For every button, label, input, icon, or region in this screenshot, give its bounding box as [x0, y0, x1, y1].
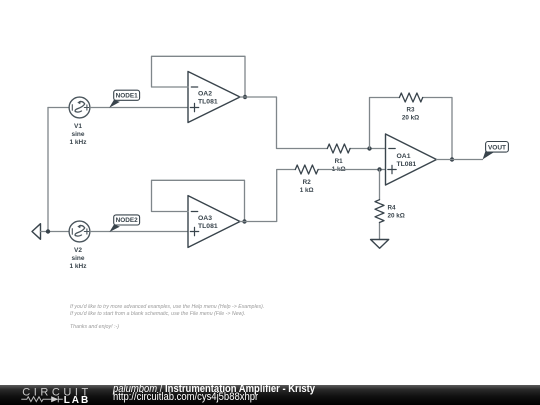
resistor R4 — [375, 200, 405, 223]
op-amp OA3 — [188, 196, 240, 248]
wire OA3 feedback loop — [152, 180, 245, 221]
svg-text:TL081: TL081 — [397, 161, 417, 168]
junction OA3 output — [242, 219, 246, 223]
wire V2 to OA3 plus input — [90, 231, 188, 233]
junction R2 / R4 node — [377, 167, 381, 171]
svg-text:VOUT: VOUT — [488, 145, 506, 152]
junction R1 / R3 node — [367, 146, 371, 150]
net flag NODE1 — [109, 90, 139, 108]
svg-text:R2: R2 — [303, 179, 312, 186]
svg-text:OA1: OA1 — [397, 153, 411, 160]
net flag VOUT — [483, 142, 509, 160]
label V1 value — [70, 123, 88, 146]
wire V1 to OA2 plus input — [90, 107, 188, 109]
wire left rail vertical — [47, 108, 49, 232]
CircuitLab logo — [0, 385, 100, 405]
ground — [371, 240, 389, 249]
wire terminal to V2 — [41, 231, 70, 233]
junction left rail — [46, 229, 50, 233]
svg-text:NODE1: NODE1 — [116, 93, 138, 100]
resistor R3 — [399, 93, 422, 122]
svg-text:1 kHz: 1 kHz — [70, 263, 88, 270]
wire R4 branch — [379, 170, 381, 240]
svg-text:sine: sine — [71, 255, 84, 262]
svg-text:R1: R1 — [335, 158, 344, 165]
junction OA2 output — [243, 95, 247, 99]
voltage source V2 — [69, 221, 90, 242]
op-amp OA1 — [386, 134, 437, 185]
wire R3 branch — [370, 98, 453, 160]
wire OA1 output — [437, 159, 483, 161]
svg-text:V2: V2 — [74, 247, 82, 254]
wire left rail to V1 — [48, 107, 69, 109]
svg-text:OA3: OA3 — [198, 215, 212, 222]
junction R3 / output node — [450, 157, 454, 161]
svg-text:OA2: OA2 — [198, 91, 212, 98]
wire OA2 feedback loop — [152, 56, 246, 97]
wire OA3 output to R2 — [240, 170, 386, 222]
svg-text:20 kΩ: 20 kΩ — [388, 213, 405, 220]
voltage source V1 — [69, 97, 90, 118]
svg-text:NODE2: NODE2 — [116, 217, 138, 224]
net flag NODE2 — [109, 215, 139, 232]
svg-text:20 kΩ: 20 kΩ — [402, 115, 419, 122]
svg-text:1 kHz: 1 kHz — [70, 139, 88, 146]
op-amp OA2 — [188, 72, 240, 123]
svg-text:V1: V1 — [74, 123, 82, 130]
resistor R2 — [295, 165, 318, 194]
label V2 value — [70, 247, 88, 270]
svg-text:TL081: TL081 — [198, 99, 218, 106]
svg-text:LAB: LAB — [64, 395, 91, 405]
wire OA2 output to R1 — [240, 97, 386, 149]
svg-text:R4: R4 — [388, 205, 397, 212]
port terminal TP1 — [32, 224, 41, 240]
svg-text:TL081: TL081 — [198, 223, 218, 230]
footer bar — [0, 385, 540, 405]
svg-text:R3: R3 — [406, 107, 415, 114]
svg-text:sine: sine — [71, 131, 84, 138]
svg-text:1 kΩ: 1 kΩ — [300, 187, 314, 194]
resistor R1 — [327, 144, 350, 173]
schematic help note — [70, 304, 264, 330]
